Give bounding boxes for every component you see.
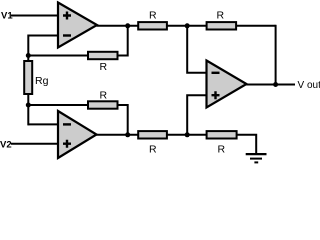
wire feedback row 1 left [28,55,88,57]
wire feedback row 1 right and up to U1 output [117,26,128,56]
resistor R3 (bottom row left) [138,131,167,138]
wire right vertical to output node [275,25,277,85]
svg-text:R: R [100,90,108,102]
wire U1 - input stub [28,35,58,37]
resistor R feedback U1 [88,52,118,59]
op-amp U2 [58,111,97,158]
wire node B up to U3 + input [187,95,207,135]
svg-text:V out: V out [298,80,320,91]
op-amp U3 [207,61,247,108]
wire feedback row 2 left [28,104,88,106]
node: Rg top junction [26,53,31,58]
wire U2 - input stub [28,123,58,125]
wire R3 to R4 (node B) [167,134,207,136]
wire node A down to U3 - input [187,26,207,73]
node A: U3 - input node [185,23,190,28]
wire U3 output to V out [246,84,295,86]
wire U2 output [96,134,139,136]
resistor Rg (vertical) [24,61,32,94]
svg-text:V2: V2 [0,139,12,150]
svg-text:Rg: Rg [35,75,49,87]
wire R2 to right vertical [236,25,276,27]
wire feedback row 2 right and down to U2 output [117,105,128,135]
resistor R feedback U2 [88,101,118,108]
svg-text:R: R [149,144,157,156]
resistor R4 (bottom row right) [207,131,237,138]
wire U1 output [97,25,139,27]
op-amp U1 [58,3,97,48]
node: U2 feedback junction [125,132,130,137]
ground [246,154,267,162]
wire R4 to ground stem [237,135,257,154]
svg-text:R: R [218,144,226,156]
node B: U3 + input node [185,132,190,137]
svg-text:R: R [217,10,225,22]
svg-text:V1: V1 [1,10,13,21]
wire Rg bottom to U2 - input [27,94,29,126]
node: output junction [273,82,278,87]
node: Rg bottom junction [26,103,31,108]
wire R1 to R2 (node A) [167,25,207,27]
wire V1 to U1 + input [11,15,58,17]
node: U1 feedback junction [125,23,130,28]
svg-text:R: R [100,61,108,73]
wire U1 - input down to Rg top [27,35,29,62]
svg-text:R: R [149,10,157,22]
resistor R1 (top row left) [138,22,167,29]
resistor R2 (top row right) [207,22,237,29]
wire V2 to U2 + input [11,143,58,145]
